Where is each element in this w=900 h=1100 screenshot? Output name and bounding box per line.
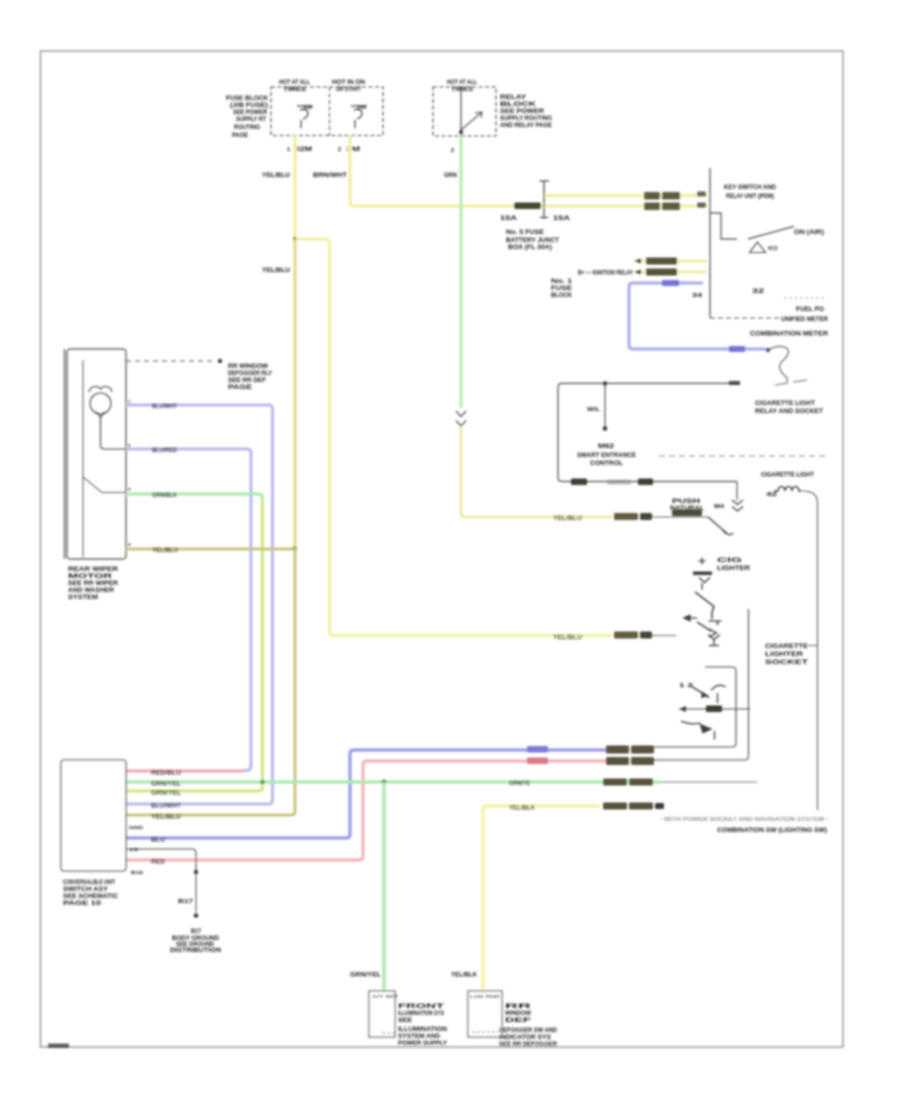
svg-text:RELAY UNIT (IPDM): RELAY UNIT (IPDM) <box>726 194 774 200</box>
wiper motor box <box>67 349 126 559</box>
label RED mid <box>527 758 548 765</box>
socket2 left arrowhead <box>679 706 686 712</box>
svg-text:YEL/BLU: YEL/BLU <box>553 516 582 522</box>
ignition relay wire 1 <box>635 260 707 263</box>
junction node A <box>293 237 297 241</box>
socket2 lower tick <box>714 731 716 740</box>
svg-text:HOT IN ON: HOT IN ON <box>332 80 365 86</box>
svg-text:BOX (FL 30A): BOX (FL 30A) <box>508 245 552 251</box>
long red wire to socket <box>126 761 606 860</box>
socket2 box path blue <box>654 667 736 747</box>
wire khaki stub4 <box>126 548 294 551</box>
wire yellow segment B <box>293 239 296 549</box>
svg-text:LIGHTER: LIGHTER <box>717 566 751 572</box>
connector blocks tan 517 <box>614 513 638 520</box>
ignition switch feed line <box>709 168 711 318</box>
svg-text:B+ --- IGNITION RELAY: B+ --- IGNITION RELAY <box>578 271 633 277</box>
motor wavy top <box>89 387 112 392</box>
socket1 v cup <box>699 578 710 583</box>
svg-text:YEL/BLU: YEL/BLU <box>151 815 181 821</box>
junction dot on top edge <box>603 381 607 385</box>
svg-text:CIGARETTE LIGHT: CIGARETTE LIGHT <box>755 401 815 407</box>
svg-text:HOT AT ALL: HOT AT ALL <box>447 80 477 86</box>
connector blocks red row <box>606 757 629 765</box>
svg-text:4: 4 <box>716 621 719 627</box>
svg-text:YEL/BLK: YEL/BLK <box>451 973 478 979</box>
battery text rows <box>551 279 573 299</box>
mid relay box path <box>558 383 740 481</box>
svg-text:WINDOW: WINDOW <box>505 1011 531 1017</box>
svg-text:BLU/WHT: BLU/WHT <box>151 804 181 810</box>
svg-text:PAGE: PAGE <box>228 385 252 391</box>
wire blue stub2 <box>126 449 251 771</box>
bottom box 1 <box>369 991 395 1037</box>
wiper motor outer line <box>64 349 66 559</box>
right component label rows <box>755 401 823 415</box>
svg-text:RED/BLU: RED/BLU <box>151 771 181 777</box>
svg-text:B17: B17 <box>191 929 202 935</box>
pin 2 under fuse block <box>338 147 360 153</box>
svg-text:ROUTING: ROUTING <box>234 125 260 131</box>
connector blocks yellow 635 <box>614 632 638 639</box>
svg-text:- WITH POWER SOCKET AND NAVIGA: - WITH POWER SOCKET AND NAVIGATION SYSTE… <box>660 817 828 823</box>
dashed bottom of meter <box>710 317 781 319</box>
junction dot yellow <box>293 547 297 551</box>
lighter right wire <box>803 491 818 810</box>
ground label rows <box>170 929 221 954</box>
page number mark <box>48 1044 69 1049</box>
socket2 tick <box>717 693 719 703</box>
svg-text:HOT AT ALL: HOT AT ALL <box>279 80 310 86</box>
svg-text:ILLUMINATION: ILLUMINATION <box>398 1027 447 1033</box>
motor V <box>97 412 105 418</box>
svg-text:SEE RR DEFOGGER: SEE RR DEFOGGER <box>499 1042 558 1048</box>
svg-text:RR WINDOW: RR WINDOW <box>228 364 268 370</box>
wire tan continuation down <box>461 427 612 517</box>
svg-text:ILLUMINATION SYS: ILLUMINATION SYS <box>398 1011 444 1017</box>
wire tan upper branch <box>544 194 708 197</box>
splice name rows <box>577 444 636 467</box>
wire khaki down to box <box>126 548 295 815</box>
svg-text:FRONT: FRONT <box>398 1004 445 1010</box>
svg-text:RR: RR <box>505 1004 533 1010</box>
ignition switch label <box>724 185 777 200</box>
socket1 left arrow <box>684 615 697 620</box>
svg-text:42: 42 <box>766 492 777 498</box>
socket2 lower arrow <box>700 724 713 734</box>
svg-text:B17: B17 <box>178 899 193 905</box>
svg-text:SOCKET: SOCKET <box>765 660 809 666</box>
socket2 label tick <box>808 645 817 647</box>
svg-text:2: 2 <box>338 147 341 153</box>
motor stem to pin <box>101 417 127 449</box>
socket2 curve <box>711 685 726 690</box>
socket1 Y mark <box>708 635 720 646</box>
bottom box 2 dashes <box>472 1031 499 1033</box>
svg-text:GRN: GRN <box>444 173 457 179</box>
socket2 block <box>706 706 722 713</box>
svg-text:GND: GND <box>129 825 144 830</box>
wire lime stub3 lower <box>126 499 262 791</box>
svg-text:2: 2 <box>451 148 454 154</box>
meter note rows <box>781 296 829 323</box>
svg-text:DISTRIBUTION: DISTRIBUTION <box>170 948 221 954</box>
svg-text:SYSTEM AND: SYSTEM AND <box>398 1034 441 1040</box>
svg-text:BLOCK: BLOCK <box>551 293 573 299</box>
ground lead 2 <box>195 874 197 912</box>
bottom box 1 dashes <box>382 1032 395 1034</box>
junction dot green <box>382 780 386 784</box>
connector blocks ignition wires <box>646 258 677 276</box>
svg-text:LHD RHD: LHD RHD <box>470 994 501 999</box>
push switch dark block <box>672 510 702 517</box>
svg-text:10A: 10A <box>303 105 313 111</box>
svg-text:SEE POWER: SEE POWER <box>500 109 545 115</box>
top edge tick <box>729 381 740 385</box>
hot-in-on label 2 <box>332 80 365 93</box>
socket2 label rows <box>765 644 809 666</box>
svg-text:YEL/BLU: YEL/BLU <box>152 548 178 554</box>
connector blocks on tan wires <box>644 192 680 210</box>
svg-text:15A: 15A <box>500 216 518 222</box>
svg-text:BATTERY JUNCT: BATTERY JUNCT <box>506 238 559 244</box>
svg-text:KEY SWITCH AND: KEY SWITCH AND <box>724 185 777 191</box>
fuse F2 <box>351 105 367 128</box>
dashed link line <box>126 360 216 362</box>
ground junction dot 1 <box>194 870 198 874</box>
svg-text:GRN/YEL: GRN/YEL <box>151 791 181 797</box>
svg-text:SEE RR WIPER: SEE RR WIPER <box>68 581 119 587</box>
svg-text:YEL/BLU: YEL/BLU <box>553 635 582 641</box>
svg-text:BLU/WHT: BLU/WHT <box>152 404 177 410</box>
fuse block divider <box>329 87 331 136</box>
ground junction dot 2 <box>194 913 199 918</box>
bottom box 2 label rows <box>499 1004 558 1048</box>
svg-text:BLOCK: BLOCK <box>500 102 537 108</box>
wire yellow YEL/BLU from fuse 1 <box>293 136 296 240</box>
dashed link dot <box>218 359 222 363</box>
svg-text:No. 1: No. 1 <box>551 279 573 285</box>
fuse block label text <box>226 96 269 139</box>
fuse F1 <box>297 105 313 128</box>
svg-text:SUPPLY RT: SUPPLY RT <box>236 117 266 123</box>
svg-text:10A: 10A <box>357 105 367 111</box>
svg-text:No. 5 FUSE: No. 5 FUSE <box>506 230 544 236</box>
fusible link symbol <box>540 181 550 219</box>
socket1 bottom dash <box>709 645 719 647</box>
dashed separator note <box>659 455 827 457</box>
svg-text:LIGHTER: LIGHTER <box>765 652 804 658</box>
svg-text:CIGARETTE LIGHT: CIGARETTE LIGHT <box>761 473 814 479</box>
labels on mid box bottom edge <box>571 479 587 486</box>
socket1 dash pin <box>709 620 722 622</box>
bottom box 2 <box>468 991 502 1037</box>
socket1 text rows <box>717 558 751 572</box>
stub end dot <box>603 426 608 431</box>
connector chevrons on green wire <box>456 411 466 426</box>
wire tan from fuse 2 <box>350 136 708 207</box>
svg-text:OR START: OR START <box>336 87 361 93</box>
svg-text:REAR WIPER: REAR WIPER <box>68 567 119 573</box>
fuse block dashed box <box>271 87 383 136</box>
svg-text:32: 32 <box>752 289 765 295</box>
connector chevrons mid <box>732 500 743 511</box>
svg-text:YEL/BLU: YEL/BLU <box>262 268 290 274</box>
svg-text:AND WASHER: AND WASHER <box>68 588 115 594</box>
svg-text:34: 34 <box>692 293 702 299</box>
wiper inner tick <box>82 502 84 549</box>
wiper motor label rows <box>68 567 119 601</box>
svg-text:15A: 15A <box>553 216 571 222</box>
relay junction dot <box>459 130 463 134</box>
svg-text:CONTROL: CONTROL <box>590 461 623 467</box>
thin lead 635 <box>652 635 676 637</box>
svg-text:M32: M32 <box>768 246 778 252</box>
ignition relay wire 2 <box>635 271 707 274</box>
green thin lead <box>660 781 757 783</box>
svg-text:M4: M4 <box>714 504 724 510</box>
svg-text:CONVERSALBLE UNIT: CONVERSALBLE UNIT <box>63 880 115 886</box>
svg-text:M62: M62 <box>598 444 615 450</box>
hot label relay <box>447 80 477 93</box>
svg-text:YEL/BLU: YEL/BLU <box>262 173 290 179</box>
junction dot blue <box>766 348 770 352</box>
svg-text:(J/B FUSE): (J/B FUSE) <box>230 103 268 109</box>
pin 1 under fuse block <box>287 147 312 153</box>
control unit box <box>61 760 126 871</box>
svg-text:TIMES: TIMES <box>283 87 306 93</box>
label BLU mid <box>527 746 548 753</box>
socket1 tick <box>701 583 703 590</box>
svg-text:RELAY: RELAY <box>500 95 526 101</box>
wire green stub3 <box>126 494 262 500</box>
arrowheads ignition relay wires <box>634 259 641 275</box>
relay name text <box>500 95 552 129</box>
switch arm 517 <box>708 517 727 534</box>
socket2 arrowhead <box>701 692 709 699</box>
svg-text:GRN/BLK: GRN/BLK <box>152 493 178 499</box>
pin text rows right of box <box>129 825 144 875</box>
svg-text:BLU/RED: BLU/RED <box>152 448 178 454</box>
wire yellow branch to right <box>296 239 612 636</box>
svg-text:- - - - - - - -: - - - - - - - - <box>784 296 824 302</box>
green vertical drop <box>382 782 385 990</box>
svg-text:UNIFIED METER: UNIFIED METER <box>781 317 829 323</box>
svg-text:SEE SCHEMATIC: SEE SCHEMATIC <box>63 894 119 900</box>
svg-text:POWER SUPPLY: POWER SUPPLY <box>398 1041 447 1047</box>
motor M circle <box>90 393 111 414</box>
connector blocks blue row <box>606 746 629 754</box>
socket1 bar <box>693 572 712 576</box>
svg-text:ON (AIR): ON (AIR) <box>794 230 824 236</box>
connector blocks green row <box>603 779 627 786</box>
svg-text:BLU: BLU <box>151 838 165 844</box>
wire green from relay <box>459 136 462 408</box>
pin marks wiper <box>128 399 131 547</box>
switch arm hook <box>723 531 733 535</box>
wire blue stub1 <box>126 405 273 804</box>
wire down from mid box <box>736 482 738 501</box>
label BLU on 283 <box>662 280 679 286</box>
svg-text:SEE RR DEF: SEE RR DEF <box>228 378 266 384</box>
connector triangle <box>750 242 766 253</box>
bottom box 1 label rows <box>398 1004 447 1047</box>
relay dashed box <box>433 87 496 136</box>
svg-text:PAGE: PAGE <box>232 133 248 139</box>
wire red stub row <box>126 770 244 773</box>
svg-text:DEF: DEF <box>505 1018 532 1024</box>
svg-text:GRN/YEL: GRN/YEL <box>151 782 181 788</box>
svg-text:SWITCH ASY: SWITCH ASY <box>63 887 108 893</box>
wire blue meter feed <box>629 283 766 349</box>
svg-text:CIG: CIG <box>717 558 743 564</box>
svg-text:FUSE BLOCK: FUSE BLOCK <box>226 96 269 102</box>
socket2 diag <box>691 686 709 698</box>
svg-text:RED: RED <box>151 860 166 866</box>
svg-text:COMBINATION METER: COMBINATION METER <box>750 332 829 338</box>
svg-text:PUSH: PUSH <box>672 499 700 505</box>
svg-text:CIGARETTE: CIGARETTE <box>765 644 808 650</box>
defogger note rows <box>228 364 272 391</box>
stub down from top edge <box>604 383 606 427</box>
long green wire <box>126 780 660 783</box>
svg-text:PAGE 10: PAGE 10 <box>63 901 102 907</box>
svg-text:GRN/YEL: GRN/YEL <box>350 973 381 979</box>
socket1 chevron <box>709 629 717 637</box>
thin lead 517 <box>652 516 708 518</box>
svg-text:FUSE: FUSE <box>551 286 572 292</box>
squiggle dashes <box>775 380 807 385</box>
wiper switch arm <box>83 477 126 493</box>
svg-text:SEE POWER: SEE POWER <box>233 110 268 116</box>
svg-text:SUPPLY ROUTING: SUPPLY ROUTING <box>500 116 552 122</box>
wiper motor inner line <box>82 360 84 557</box>
socket2 mid horizontal <box>679 708 750 710</box>
connector blocks yellow row <box>603 803 627 810</box>
svg-text:SEE: SEE <box>398 1018 412 1024</box>
socket1 plus mark <box>699 558 706 565</box>
svg-text:32M: 32M <box>295 147 312 153</box>
svg-text:DEFOGGER SW AND: DEFOGGER SW AND <box>499 1028 558 1034</box>
svg-text:GRN/YE: GRN/YE <box>509 781 530 787</box>
svg-text:MOTOR: MOTOR <box>68 574 113 580</box>
relay contact <box>461 87 482 136</box>
control unit label rows <box>63 880 119 907</box>
long blue wire to socket <box>126 750 606 838</box>
yellow wire from defogger switch <box>483 806 600 990</box>
switch arm <box>748 227 794 240</box>
svg-text:3M: 3M <box>346 147 360 153</box>
svg-text:SYSTEM: SYSTEM <box>68 595 98 601</box>
socket1 arm lower <box>695 592 714 619</box>
svg-text:COMBINATION SW (LIGHTING SW): COMBINATION SW (LIGHTING SW) <box>717 828 827 834</box>
pin blobs at wire ends <box>697 192 706 208</box>
svg-text:AND RELAY PAGE: AND RELAY PAGE <box>500 123 552 129</box>
ground lead <box>126 849 196 870</box>
svg-text:A/T M/T: A/T M/T <box>372 994 398 999</box>
svg-text:W/L: W/L <box>587 407 600 413</box>
svg-text:SMART ENTRANCE: SMART ENTRANCE <box>577 453 636 459</box>
socket1 diag2 <box>697 622 711 631</box>
svg-text:1: 1 <box>287 147 290 153</box>
svg-text:RELAY AND SOCKET: RELAY AND SOCKET <box>755 409 823 415</box>
svg-text:B16: B16 <box>131 870 144 875</box>
hot-at-all-times label 1 <box>279 80 310 93</box>
svg-text:TIMES: TIMES <box>451 87 473 93</box>
socket2 lower curve <box>681 721 701 724</box>
heater coil element <box>774 487 802 492</box>
svg-text:DEFOGGER RLY: DEFOGGER RLY <box>228 371 272 377</box>
flexible cord squiggle <box>768 347 788 382</box>
svg-text:INDICATOR SYS: INDICATOR SYS <box>499 1035 551 1041</box>
junction dot lime-green <box>260 780 264 784</box>
label on tan wire <box>514 203 541 210</box>
label BLU on 349 <box>729 346 745 352</box>
svg-text:YEL/BLK: YEL/BLK <box>509 806 536 812</box>
switch step wire <box>710 213 737 239</box>
svg-text:FUEL PG: FUEL PG <box>796 307 824 313</box>
fusible link name <box>506 230 559 251</box>
socket2 box path red <box>654 609 749 760</box>
push switch text stack <box>670 499 704 512</box>
svg-text:BRN/WHT: BRN/WHT <box>313 173 347 179</box>
